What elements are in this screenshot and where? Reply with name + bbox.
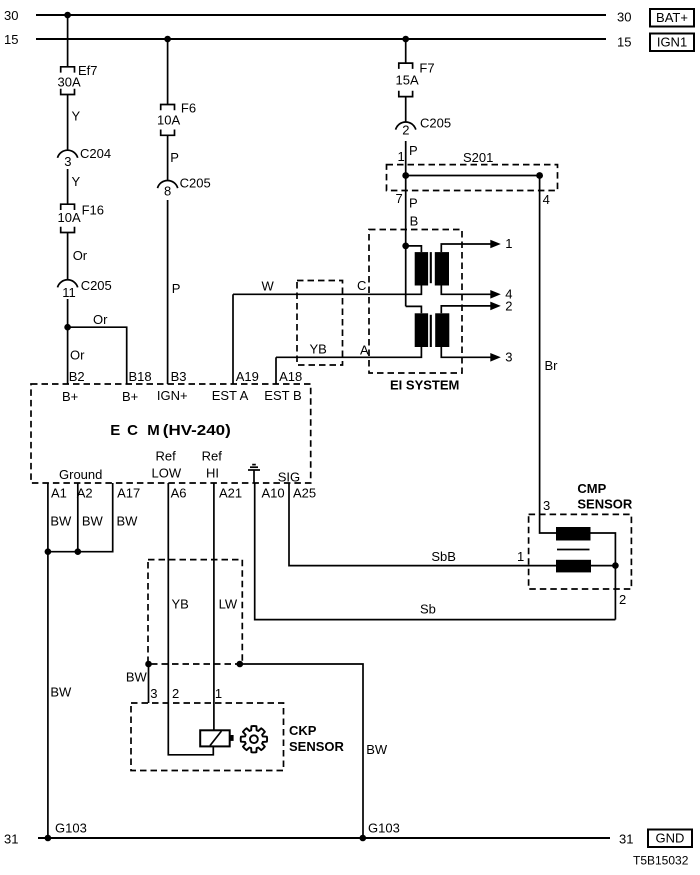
CKP reluctor gear [241, 726, 267, 752]
wire Or [67, 233, 69, 280]
wire B to coil 2 primary [406, 306, 422, 313]
svg-text:Or: Or [93, 312, 108, 327]
connector C205 pin 11 [58, 280, 78, 288]
shield junction right [237, 661, 244, 668]
EI system box [369, 230, 462, 374]
shield box YB [297, 281, 343, 366]
wire Y [67, 95, 69, 151]
svg-text:Ref: Ref [156, 449, 177, 464]
svg-text:A25: A25 [293, 486, 316, 501]
svg-text:B+: B+ [122, 389, 138, 404]
svg-text:C205: C205 [180, 176, 211, 191]
bus 15 [36, 38, 606, 40]
svg-text:EST A: EST A [212, 388, 249, 403]
CMP pole piece [557, 549, 590, 551]
svg-text:Ref: Ref [202, 449, 223, 464]
ignition coil T2 primary winding [415, 313, 428, 347]
svg-text:YB: YB [172, 597, 189, 612]
wire BW shield drain to CKP pin 3 [148, 664, 150, 703]
svg-text:BW: BW [126, 670, 148, 685]
wire to spark plug 3 [441, 347, 490, 357]
svg-text:Y: Y [72, 174, 81, 189]
svg-text:2: 2 [619, 592, 626, 607]
svg-text:1: 1 [398, 149, 405, 164]
svg-text:F6: F6 [181, 101, 196, 116]
svg-text:15A: 15A [396, 72, 419, 87]
svg-text:CKP: CKP [289, 723, 317, 738]
svg-text:C205: C205 [81, 278, 112, 293]
svg-text:31: 31 [4, 832, 18, 847]
wire YB from A6 to CKP pin 2 [168, 483, 213, 755]
svg-text:GND: GND [656, 831, 685, 846]
svg-text:2: 2 [505, 298, 512, 313]
wire BW shield drain to G103 [240, 664, 363, 838]
junction CMP output [612, 562, 619, 569]
svg-text:A1: A1 [51, 486, 67, 501]
svg-text:A21: A21 [219, 486, 242, 501]
wire P to pin B3 [167, 200, 169, 384]
svg-text:11: 11 [62, 285, 76, 300]
junction A1 [45, 548, 52, 555]
svg-text:10A: 10A [58, 210, 81, 225]
svg-text:3: 3 [150, 686, 157, 701]
svg-text:4: 4 [543, 192, 550, 207]
svg-text:LOW: LOW [152, 466, 182, 481]
svg-text:10A: 10A [157, 113, 180, 128]
coil T1 core [430, 252, 432, 283]
svg-text:SENSOR: SENSOR [577, 497, 633, 512]
wire Or to pin B2 [67, 299, 69, 384]
CKP inductive pickup [200, 730, 230, 746]
svg-text:P: P [170, 150, 179, 165]
junction A2 [75, 548, 82, 555]
svg-text:A17: A17 [117, 486, 140, 501]
wire EST B vertical [275, 357, 277, 384]
svg-text:A19: A19 [236, 369, 259, 384]
junction S201 left [402, 172, 409, 179]
svg-text:IGN1: IGN1 [657, 35, 687, 50]
svg-text:C: C [357, 278, 366, 293]
svg-text:Ground: Ground [59, 467, 102, 482]
wire EST A vertical [232, 294, 234, 384]
svg-text:A6: A6 [171, 486, 187, 501]
wire [405, 39, 407, 63]
internal ground symbol [253, 470, 255, 483]
wire BW from A2 [77, 483, 79, 552]
svg-text:P: P [409, 143, 418, 158]
CKP magnet nub [230, 735, 234, 741]
svg-text:1: 1 [215, 686, 222, 701]
svg-text:30: 30 [617, 10, 631, 25]
node B junction [402, 243, 409, 250]
wire CMP internal right [591, 533, 616, 620]
svg-text:30A: 30A [58, 75, 81, 90]
svg-text:LW: LW [219, 597, 238, 612]
svg-text:15: 15 [617, 35, 631, 50]
junction on bus 15 [164, 36, 171, 43]
wire to spark plug 1 [441, 244, 490, 252]
wire BW from A1 to G103 [47, 483, 49, 838]
CMP magnet winding top [556, 527, 591, 541]
wire Y [67, 169, 69, 204]
bus 31 / ground G103 [38, 837, 610, 839]
svg-text:1: 1 [517, 549, 524, 564]
connector C204 pin 3 [58, 150, 78, 158]
junction on bus 30 [64, 12, 71, 19]
svg-text:30: 30 [4, 8, 18, 23]
svg-text:2: 2 [172, 686, 179, 701]
svg-text:BW: BW [50, 514, 72, 529]
svg-text:BW: BW [50, 685, 72, 700]
svg-text:B+: B+ [62, 389, 78, 404]
splice S201 [387, 165, 558, 191]
svg-text:BAT+: BAT+ [656, 10, 688, 25]
svg-text:ECM(HV-240): ECM(HV-240) [110, 422, 231, 439]
svg-text:HI: HI [206, 466, 219, 481]
coil T2 core [430, 315, 432, 347]
wire [67, 15, 69, 67]
svg-text:15: 15 [4, 32, 18, 47]
svg-text:3: 3 [543, 498, 550, 513]
svg-text:1: 1 [505, 236, 512, 251]
wire C (EST A / W) [233, 286, 421, 295]
svg-text:31: 31 [619, 832, 633, 847]
ground G103 left junction [45, 835, 52, 842]
wire [406, 175, 540, 177]
wire Br to CMP pin 3 [540, 176, 556, 534]
connector C205 pin 8 [158, 180, 178, 188]
svg-text:SIG: SIG [278, 470, 300, 485]
wire P / B to EI system [405, 176, 407, 307]
svg-text:P: P [172, 281, 181, 296]
svg-text:A10: A10 [262, 486, 285, 501]
svg-text:SbB: SbB [431, 549, 456, 564]
ignition coil T1 primary winding [415, 252, 428, 285]
svg-text:A2: A2 [77, 486, 93, 501]
svg-text:A: A [360, 342, 369, 357]
svg-text:2: 2 [402, 123, 409, 138]
svg-text:IGN+: IGN+ [157, 388, 188, 403]
bus 30 [36, 14, 606, 16]
wire BW from A17 [48, 483, 113, 552]
svg-text:S201: S201 [463, 150, 493, 165]
svg-text:YB: YB [310, 342, 327, 357]
svg-text:G103: G103 [55, 821, 87, 836]
junction [64, 324, 71, 331]
wire Sb from A10 to CMP pin 2 [255, 483, 616, 620]
terminal GND [648, 830, 692, 848]
svg-text:W: W [262, 279, 275, 294]
terminal BAT+ [650, 9, 694, 27]
svg-text:C205: C205 [420, 116, 451, 131]
svg-text:7: 7 [396, 191, 403, 206]
svg-text:P: P [409, 196, 418, 211]
ground G103 right junction [360, 835, 367, 842]
svg-text:B3: B3 [171, 369, 187, 384]
svg-text:C204: C204 [80, 146, 111, 161]
svg-text:BW: BW [117, 514, 139, 529]
CKP sensor box [131, 703, 284, 771]
CMP pickup coil bottom [556, 560, 591, 573]
wire SbB from A25 to CMP pin 1 [289, 483, 556, 566]
shield box YB/LW [148, 560, 242, 664]
connector C205 pin 2 [396, 122, 416, 130]
svg-text:A18: A18 [279, 369, 302, 384]
wire A (EST B / YB) [276, 347, 421, 357]
svg-text:Br: Br [545, 358, 559, 373]
shield junction left [145, 661, 152, 668]
svg-text:BW: BW [82, 514, 104, 529]
wire [167, 39, 169, 105]
svg-text:F16: F16 [82, 203, 104, 218]
fuse Ef7 30A [61, 67, 75, 73]
svg-text:T5B15032: T5B15032 [633, 854, 689, 868]
svg-text:3: 3 [505, 350, 512, 365]
junction S201 right [536, 172, 543, 179]
svg-text:8: 8 [164, 184, 171, 199]
wire P [167, 135, 169, 180]
svg-text:Or: Or [70, 348, 85, 363]
svg-text:Or: Or [73, 248, 88, 263]
wire to spark plug 2 [441, 306, 490, 313]
ECM module box [31, 384, 311, 483]
svg-text:B2: B2 [69, 369, 85, 384]
wire P [405, 141, 407, 176]
fuse F7 15A [399, 63, 413, 69]
ignition coil T1 secondary winding [435, 252, 449, 285]
svg-text:3: 3 [64, 154, 71, 169]
svg-text:EI SYSTEM: EI SYSTEM [390, 378, 459, 393]
svg-text:EST B: EST B [264, 388, 301, 403]
svg-text:Ef7: Ef7 [78, 63, 98, 78]
svg-text:BW: BW [366, 742, 388, 757]
fuse F6 10A [161, 105, 175, 111]
svg-text:SENSOR: SENSOR [289, 739, 345, 754]
svg-text:G103: G103 [368, 821, 400, 836]
terminal IGN1 [650, 34, 694, 52]
ignition coil T2 secondary winding [435, 313, 449, 347]
svg-text:Y: Y [72, 109, 81, 124]
CMP sensor box [529, 514, 632, 589]
wire to spark plug 4 [441, 286, 490, 295]
wire to coil 1 primary [406, 246, 422, 252]
fuse F16 10A [61, 204, 75, 210]
svg-text:CMP: CMP [577, 481, 606, 496]
svg-text:F7: F7 [419, 60, 434, 75]
wire [405, 97, 407, 122]
svg-text:Sb: Sb [420, 602, 436, 617]
junction on bus 15 [402, 36, 409, 43]
wire LW from A21 to CKP pin 1 [213, 483, 215, 730]
wire Or branch to pin B18 [68, 327, 127, 384]
svg-text:B18: B18 [129, 369, 152, 384]
svg-text:B: B [410, 214, 419, 229]
